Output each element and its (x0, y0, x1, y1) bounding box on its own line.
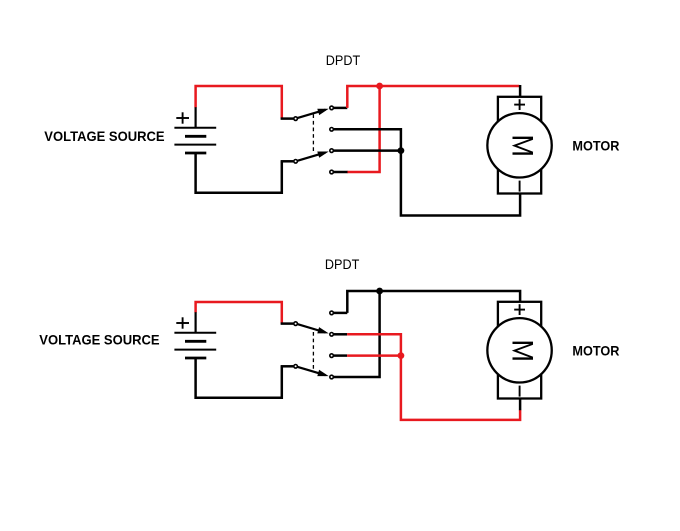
motor M1 letter M (rotated 90) (513, 138, 534, 154)
switch S2 throw 1 contact (330, 311, 334, 315)
battery B2 plus sign (176, 317, 189, 328)
wire: black battery- to pole2 (top circuit) (196, 153, 282, 193)
switch S2 arm pole1 to throw2 (297, 324, 328, 333)
wire: red junction down to motor- (bottom) (401, 356, 520, 420)
switch S2 throw 3 contact (330, 354, 334, 358)
battery B2 plate long (174, 349, 216, 351)
switch S2 throw 2 contact (330, 333, 334, 337)
wire: black stub from throw1 (bottom) (334, 312, 348, 315)
motor M1 plus sign (514, 99, 525, 110)
junction dot black (top rail bottom circuit) (376, 288, 383, 295)
svg-text:DPDT: DPDT (325, 257, 360, 272)
wire: black rail down to throw4 (bottom) (334, 291, 380, 377)
wire: red throw1 to motor+ rail (347, 86, 519, 108)
junction dot black (motor- net) (398, 147, 405, 154)
battery B2 top terminal stub (195, 312, 197, 333)
wire: red throw3 to junction (bottom) (347, 354, 401, 357)
wire: black stub from throw4 (334, 171, 348, 174)
switch S2 pole 2 contact (294, 365, 298, 369)
wire: red rail down to throw4 (347, 86, 380, 172)
battery B1 plate long (positive) (174, 127, 216, 129)
wire: black stub from throw3 (bottom) (334, 354, 347, 357)
switch S2 linkage dashed line (312, 332, 314, 371)
svg-text:MOTOR: MOTOR (572, 343, 619, 359)
wire: black stub into pole 2 (bottom) (281, 365, 294, 368)
switch S1 throw 2 contact (330, 128, 334, 132)
motor M1 frame rect (498, 97, 541, 194)
wire: black throw1 to motor+ rail (bottom) (347, 291, 520, 313)
wire: black throw3 to junction to motor- (334, 151, 520, 216)
switch S1 throw 3 contact (330, 149, 334, 153)
switch S1 arm pole1 to throw1 (297, 109, 328, 118)
switch S1 throw 4 contact (330, 170, 334, 174)
switch S2 arm pole2 to throw4 (297, 367, 328, 376)
motor M1 minus (rotated, vertical dash) (519, 181, 521, 192)
svg-text:VOLTAGE SOURCE: VOLTAGE SOURCE (39, 332, 159, 348)
switch S1 pole 2 contact (294, 160, 298, 164)
wire: black stub into pole 1 (281, 117, 294, 120)
wire: black motor top stub (519, 85, 522, 97)
wire: black stub from throw2 (bottom) (334, 333, 347, 336)
motor M2 plus sign (514, 304, 525, 315)
motor M2 minus (rotated, vertical dash) (519, 386, 521, 397)
svg-text:DPDT: DPDT (326, 53, 361, 68)
junction dot red (bottom circuit) (398, 352, 405, 359)
battery B2 plate short (negative) (185, 357, 206, 360)
wire: red throw2 down to junction (bottom) (347, 334, 401, 354)
wire: red battery+ to pole1 (bottom circuit) (196, 302, 282, 324)
wire: black stub from throw1 (334, 107, 348, 110)
wire: black throw2 down to junction (334, 129, 401, 149)
switch S1 pole 1 contact (294, 117, 298, 121)
switch S2 throw 4 contact (330, 375, 334, 379)
switch S1 linkage dashed line (312, 114, 314, 153)
switch S2 pole 1 contact (294, 322, 298, 326)
motor M2 frame rect (498, 302, 541, 399)
battery B1 plate long (174, 144, 216, 146)
motor M2 letter M (rotated 90) (513, 343, 534, 359)
wire: black battery- to pole2 (bottom circuit) (196, 358, 282, 398)
battery B2 plate short (185, 340, 206, 343)
junction dot red (top rail) (376, 83, 383, 90)
svg-text:MOTOR: MOTOR (572, 138, 619, 154)
wire: black motor bottom stub (bottom) (519, 399, 522, 411)
motor M1 body circle (487, 113, 551, 177)
battery B1 plus sign (176, 112, 189, 123)
svg-text:VOLTAGE SOURCE: VOLTAGE SOURCE (44, 128, 164, 144)
wire: black stub into pole 2 (281, 160, 294, 163)
battery B2 plate long (positive) (174, 332, 216, 334)
switch S1 throw 1 contact (330, 106, 334, 110)
motor M2 body circle (487, 318, 551, 382)
battery B1 plate short (185, 135, 206, 138)
switch S1 arm pole2 to throw3 (297, 152, 328, 161)
wire: red battery+ to pole1 (top circuit) (196, 86, 282, 119)
battery B1 plate short (negative) (185, 152, 206, 155)
wire: black stub into pole 1 (bottom) (281, 322, 294, 325)
battery B1 top terminal stub (195, 107, 197, 128)
